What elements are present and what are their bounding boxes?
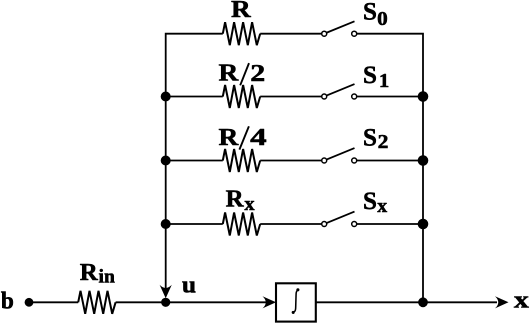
svg-text:x: x bbox=[244, 194, 255, 215]
wire row4 switch Sx to right bus bbox=[357, 223, 423, 225]
svg-text:R: R bbox=[219, 125, 240, 151]
wire row3 switch S2 to right bus bbox=[357, 160, 423, 162]
switch Sx left contact bbox=[322, 222, 327, 227]
wire row2 resistor to switch S1 bbox=[260, 96, 322, 98]
switch S0 right contact bbox=[352, 31, 357, 36]
svg-text:b: b bbox=[1, 288, 14, 314]
svg-text:R: R bbox=[80, 260, 99, 286]
switch Sx lever bbox=[327, 212, 355, 223]
switch S0 lever bbox=[327, 21, 355, 32]
svg-text:x: x bbox=[377, 196, 387, 217]
svg-text:u: u bbox=[182, 273, 196, 299]
node dot right bus row3 bbox=[418, 155, 429, 166]
wire b-terminal to resistor Rin bbox=[29, 301, 78, 303]
wire right bus with top corner from switch S0 bbox=[357, 34, 423, 303]
svg-text:R: R bbox=[219, 61, 240, 87]
switch S2 lever bbox=[327, 148, 355, 159]
svg-text:2: 2 bbox=[250, 61, 265, 87]
node dot u bbox=[161, 298, 170, 307]
svg-text:S: S bbox=[363, 188, 377, 215]
switch Sx right contact bbox=[352, 222, 357, 227]
svg-text:1: 1 bbox=[379, 71, 389, 92]
wire row3 left-bus to resistor R/4 bbox=[166, 160, 223, 162]
arrowhead down into node u bbox=[160, 285, 172, 299]
resistor Rx bbox=[223, 213, 260, 236]
wire row4 left-bus to resistor Rx bbox=[166, 223, 223, 225]
wire right junction to x arrow bbox=[423, 301, 497, 303]
svg-text:R: R bbox=[231, 0, 251, 23]
switch S2 left contact bbox=[322, 158, 327, 163]
wire resistor Rin to node u bbox=[116, 301, 166, 303]
switch S0 left contact bbox=[322, 31, 327, 36]
node dot left bus row2 bbox=[161, 92, 171, 102]
wire node u to integrator arrow bbox=[166, 301, 266, 303]
terminal dot b bbox=[25, 298, 34, 307]
svg-text:S: S bbox=[363, 62, 377, 89]
node dot left bus row4 bbox=[161, 219, 171, 229]
node dot right bus row4 bbox=[418, 219, 429, 230]
wire row1 resistor to switch S0 bbox=[260, 33, 322, 35]
arrowhead into integrator bbox=[263, 296, 277, 308]
node dot right junction bbox=[418, 297, 428, 307]
integrator box U1 bbox=[276, 283, 316, 321]
wire left bus with top corner to row1 bbox=[166, 34, 223, 290]
switch S1 right contact bbox=[352, 94, 357, 99]
svg-text:S: S bbox=[363, 125, 377, 152]
resistor Rin bbox=[78, 291, 115, 314]
svg-text:2: 2 bbox=[378, 132, 389, 153]
wire integrator to right junction bbox=[316, 301, 423, 303]
svg-text:S: S bbox=[363, 0, 377, 26]
wire row3 resistor to switch S2 bbox=[260, 160, 322, 162]
switch S1 lever bbox=[327, 84, 355, 95]
switch S1 left contact bbox=[322, 94, 327, 99]
arrowhead output x bbox=[495, 296, 509, 308]
switch S2 right contact bbox=[352, 158, 357, 163]
node dot left bus row3 bbox=[161, 156, 171, 166]
svg-text:in: in bbox=[99, 267, 116, 288]
resistor R/2 bbox=[223, 85, 260, 108]
resistor R bbox=[223, 22, 260, 45]
wire row4 resistor to switch Sx bbox=[260, 223, 322, 225]
integrator symbol bbox=[292, 288, 300, 314]
svg-text:4: 4 bbox=[250, 125, 267, 151]
node dot right bus row2 bbox=[418, 91, 429, 102]
svg-text:R: R bbox=[226, 187, 245, 213]
wire row2 left-bus to resistor R/2 bbox=[166, 96, 223, 98]
svg-text:x: x bbox=[514, 288, 529, 314]
svg-text:0: 0 bbox=[377, 9, 388, 30]
wire row2 switch S1 to right bus bbox=[357, 96, 423, 98]
resistor R/4 bbox=[223, 149, 260, 172]
